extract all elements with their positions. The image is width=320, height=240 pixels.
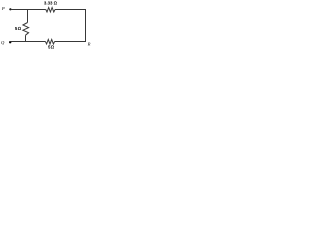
svg-text:P: P [1, 6, 5, 11]
wire bottom-right [55, 41, 86, 43]
wire branch top lead [27, 10, 29, 23]
resistor 5 ohm (left, vertical zigzag) [23, 23, 29, 36]
svg-text:5 Ω: 5 Ω [48, 45, 55, 50]
node Q terminal dot [9, 41, 11, 43]
svg-text:5 Ω: 5 Ω [15, 26, 22, 31]
node P terminal dot [9, 8, 11, 10]
wire right vertical [85, 10, 87, 43]
wire top from P to 3.33 ohm resistor [10, 9, 45, 11]
wire top-right [55, 9, 86, 11]
resistor 3.33 ohm (top, horizontal zigzag) [46, 8, 55, 13]
resistor 5 ohm (bottom, horizontal zigzag) [45, 39, 54, 44]
svg-text:Q: Q [1, 40, 5, 45]
svg-text:R: R [87, 41, 91, 46]
wire branch bottom lead [25, 35, 27, 42]
svg-text:3.33 Ω: 3.33 Ω [44, 1, 58, 6]
wire bottom-left from Q to 5 ohm resistor [10, 41, 45, 43]
